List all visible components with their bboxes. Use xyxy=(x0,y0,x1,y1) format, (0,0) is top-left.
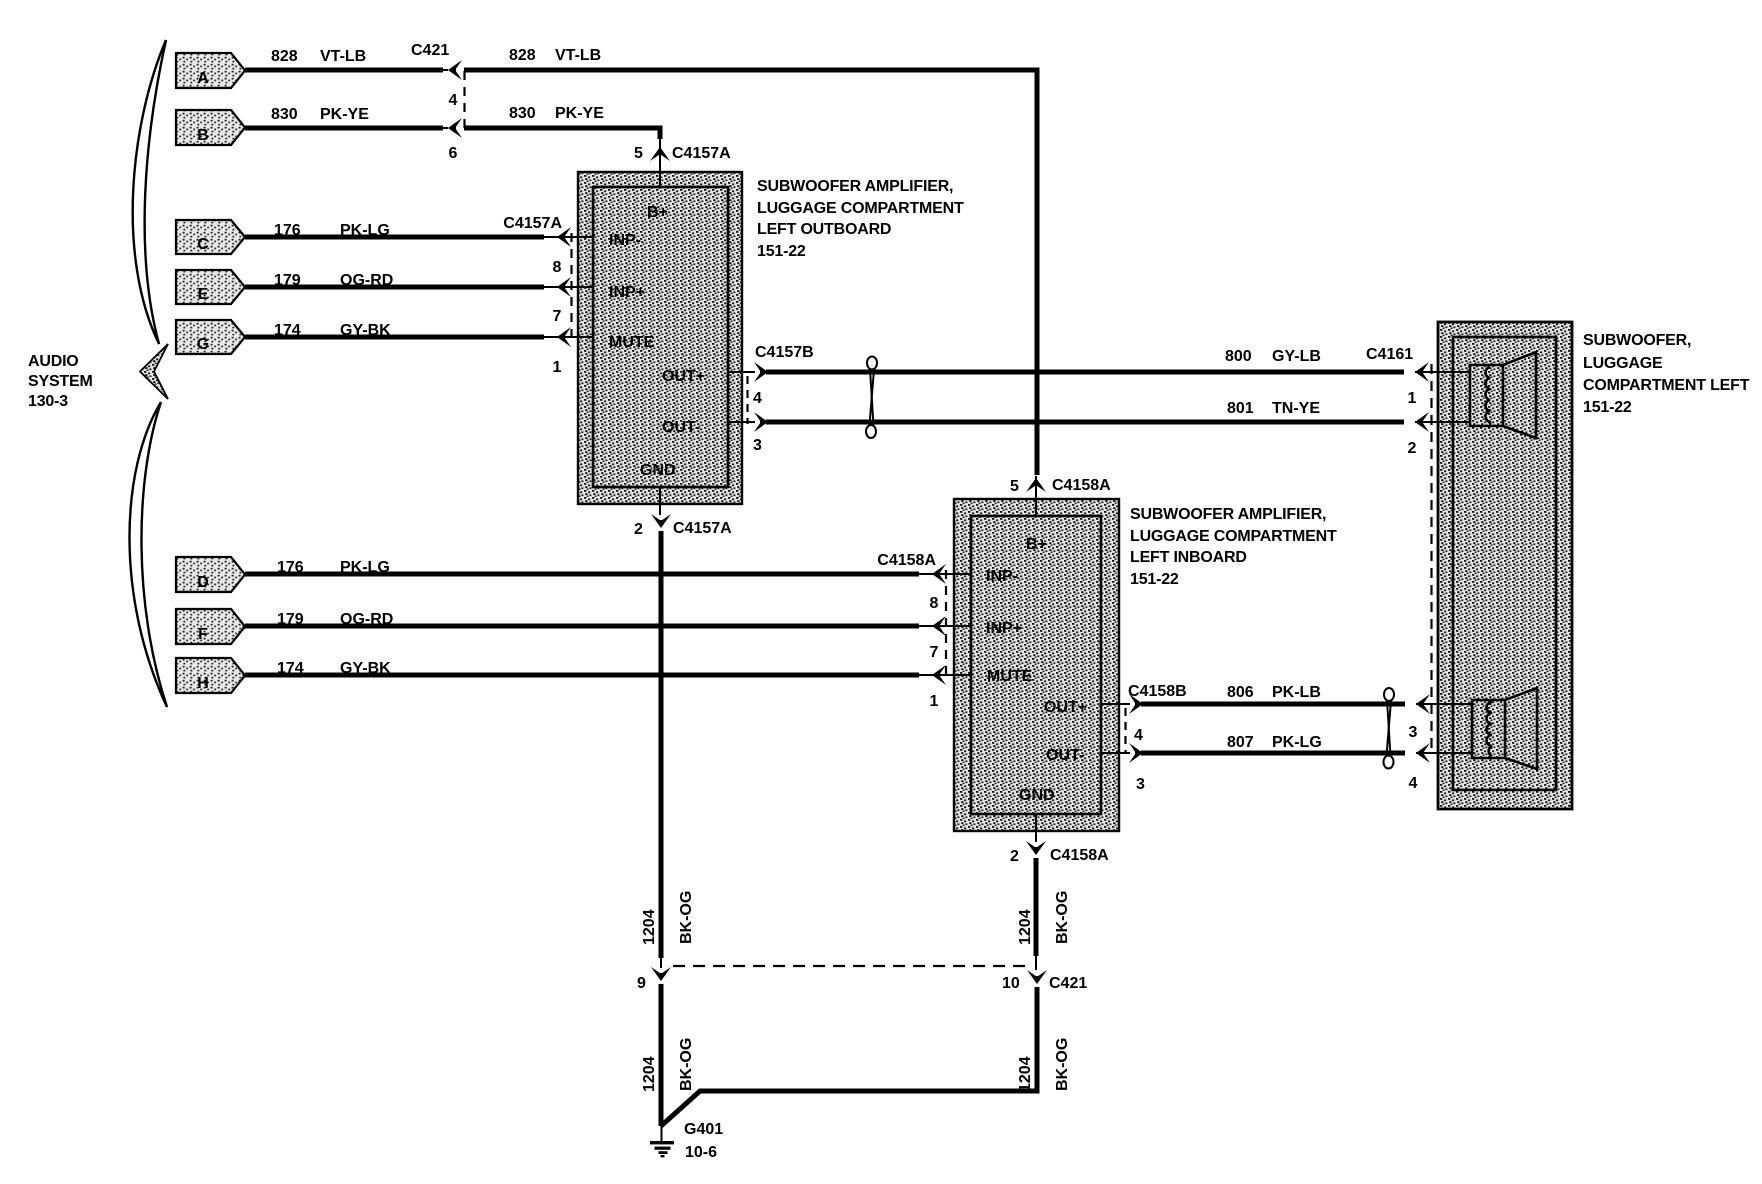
wire 830 PK-YE (C421 to amp1 B+) xyxy=(464,128,660,139)
C4158B pin 3 arrow xyxy=(1129,743,1143,763)
pin B xyxy=(176,110,245,145)
svg-text:1: 1 xyxy=(1408,390,1417,407)
svg-text:4: 4 xyxy=(449,92,458,109)
svg-text:LUGGAGE: LUGGAGE xyxy=(1583,355,1663,372)
C4157B pin 3 arrow xyxy=(754,412,768,432)
svg-text:4: 4 xyxy=(1409,775,1418,792)
C4157A pin 1 arrow xyxy=(557,327,571,347)
svg-text:SUBWOOFER,: SUBWOOFER, xyxy=(1583,332,1691,349)
wire stub C4161 pin 1 into subwoofer xyxy=(1415,371,1470,373)
svg-text:PK-LG: PK-LG xyxy=(340,559,390,576)
pin G xyxy=(176,320,245,354)
C4157B dashed boundary xyxy=(746,376,748,424)
svg-text:PK-LB: PK-LB xyxy=(1272,684,1321,701)
wire OUT+ stub xyxy=(1101,703,1130,705)
svg-text:PK-YE: PK-YE xyxy=(555,105,604,122)
C4157A pin 7 arrow xyxy=(557,277,571,297)
wire stub C4157A pin 8 into amp1 xyxy=(558,236,593,238)
wire OUT+ stub xyxy=(728,371,755,373)
svg-text:PK-YE: PK-YE xyxy=(320,106,369,123)
wire 801 TN-YE (amp1 OUT- to subwoofer) xyxy=(766,420,1404,425)
svg-text:1204: 1204 xyxy=(641,909,658,945)
C4157A pin 8 arrow xyxy=(557,227,571,247)
wire 174 GY-BK (pin G to C4157A pin 1) xyxy=(245,335,544,340)
svg-text:C4157A: C4157A xyxy=(673,520,732,537)
brace arrow dart xyxy=(140,344,168,399)
svg-text:GY-BK: GY-BK xyxy=(340,322,391,339)
wire 1204 BK-OG (below C421 right, to ground run) xyxy=(661,987,1037,1126)
wire stub C4157A pin 5 into amp1 B+ xyxy=(659,158,661,188)
pin D xyxy=(176,557,245,592)
C4158B dashed boundary xyxy=(1124,708,1126,753)
svg-text:C: C xyxy=(197,236,209,253)
svg-text:B+: B+ xyxy=(647,204,668,221)
twisted pair symbol xyxy=(1384,688,1395,769)
svg-text:SYSTEM: SYSTEM xyxy=(28,373,93,390)
svg-text:INP-: INP- xyxy=(986,568,1018,585)
svg-text:A: A xyxy=(197,70,209,87)
svg-text:176: 176 xyxy=(274,222,301,239)
svg-text:C421: C421 xyxy=(1049,975,1087,992)
svg-text:VT-LB: VT-LB xyxy=(555,47,601,64)
svg-text:GY-BK: GY-BK xyxy=(340,660,391,677)
svg-text:OUT-: OUT- xyxy=(1046,747,1084,764)
C421 dashed boundary (horizontal) xyxy=(673,965,1028,967)
C4161 pin 3 arrow xyxy=(1416,703,1472,705)
svg-text:TN-YE: TN-YE xyxy=(1272,400,1320,417)
C4157A input dashed boundary xyxy=(570,233,572,344)
twisted pair symbol xyxy=(866,357,877,439)
svg-text:OUT+: OUT+ xyxy=(662,368,705,385)
svg-text:3: 3 xyxy=(1136,776,1145,793)
svg-text:G: G xyxy=(197,336,209,353)
speaker LS1 (top voice coil + cone) xyxy=(1470,352,1536,438)
wire 828 VT-LB (C421 to vertical feed) xyxy=(464,70,1037,475)
svg-text:4: 4 xyxy=(753,390,762,407)
brace upper crescent xyxy=(133,40,166,344)
C4161 pin 4 arrow xyxy=(1416,752,1472,754)
C4158A pin 2 arrow (amp2 GND) xyxy=(1035,814,1037,841)
svg-text:LUGGAGE COMPARTMENT: LUGGAGE COMPARTMENT xyxy=(757,200,964,217)
wire 179 OG-RD (pin E to C4157A pin 7) xyxy=(245,285,544,290)
svg-text:C4158A: C4158A xyxy=(877,552,936,569)
pin E xyxy=(176,270,245,304)
wire 807 PK-LG (amp2 OUT- to subwoofer) xyxy=(1141,751,1405,756)
wire stub C4161 pin 2 into subwoofer xyxy=(1415,421,1470,423)
svg-text:3: 3 xyxy=(753,437,762,454)
svg-text:MUTE: MUTE xyxy=(609,334,655,351)
wire 800 GY-LB (amp1 OUT+ to subwoofer) xyxy=(766,370,1404,375)
svg-text:C4158A: C4158A xyxy=(1050,847,1109,864)
svg-text:PK-LG: PK-LG xyxy=(340,222,390,239)
svg-text:C4157A: C4157A xyxy=(503,215,562,232)
wire 828 VT-LB (pin A to C421) xyxy=(245,68,443,73)
wire stub amp1 GND to pin 2 xyxy=(659,486,661,515)
wire OUT- stub xyxy=(1101,752,1130,754)
wire stub C4158A pin 1 into amp2 xyxy=(932,674,971,676)
svg-text:174: 174 xyxy=(274,322,301,339)
svg-text:C4157B: C4157B xyxy=(755,344,814,361)
pin H xyxy=(176,658,245,693)
svg-text:1: 1 xyxy=(553,359,562,376)
wire stub C4161 pin 4 into subwoofer xyxy=(1416,752,1472,754)
svg-text:1204: 1204 xyxy=(1017,1056,1034,1092)
svg-text:130-3: 130-3 xyxy=(28,393,68,410)
svg-text:10-6: 10-6 xyxy=(685,1144,717,1161)
C4161 pin 1 arrow xyxy=(1415,371,1470,373)
C4158B pin 4 arrow xyxy=(1129,694,1143,714)
svg-text:OG-RD: OG-RD xyxy=(340,272,393,289)
svg-text:2: 2 xyxy=(634,521,643,538)
svg-text:7: 7 xyxy=(553,308,562,325)
svg-text:BK-OG: BK-OG xyxy=(1054,891,1071,944)
svg-text:800: 800 xyxy=(1225,348,1252,365)
brace lower crescent xyxy=(129,402,167,707)
svg-text:6: 6 xyxy=(449,145,458,162)
svg-text:2: 2 xyxy=(1010,848,1019,865)
svg-text:MUTE: MUTE xyxy=(987,668,1033,685)
svg-text:BK-OG: BK-OG xyxy=(678,1038,695,1091)
svg-text:LEFT OUTBOARD: LEFT OUTBOARD xyxy=(757,221,891,238)
svg-text:151-22: 151-22 xyxy=(1130,571,1179,588)
svg-text:E: E xyxy=(198,286,209,303)
pin A xyxy=(176,53,245,88)
C4161 dashed boundary xyxy=(1430,364,1432,754)
svg-text:174: 174 xyxy=(277,660,304,677)
svg-text:9: 9 xyxy=(637,975,646,992)
svg-text:GND: GND xyxy=(1019,787,1055,804)
svg-text:1204: 1204 xyxy=(641,1056,658,1092)
svg-text:INP+: INP+ xyxy=(609,284,645,301)
svg-text:B+: B+ xyxy=(1026,536,1047,553)
amp U1 body xyxy=(578,172,742,504)
svg-text:10: 10 xyxy=(1002,975,1020,992)
pin C xyxy=(176,220,245,254)
C4157A pin 2 arrow (amp1 GND) xyxy=(659,487,661,514)
svg-text:151-22: 151-22 xyxy=(757,243,806,260)
svg-text:5: 5 xyxy=(634,145,643,162)
svg-text:INP-: INP- xyxy=(609,232,641,249)
svg-text:806: 806 xyxy=(1227,684,1254,701)
svg-text:BK-OG: BK-OG xyxy=(678,891,695,944)
connector C421 dashed boundary xyxy=(463,71,465,130)
svg-text:B: B xyxy=(197,127,209,144)
ground G401 xyxy=(661,1126,663,1141)
svg-text:GY-LB: GY-LB xyxy=(1272,348,1321,365)
wire 1204 BK-OG (below C421 left) xyxy=(659,984,664,1126)
svg-text:2: 2 xyxy=(1408,440,1417,457)
svg-text:COMPARTMENT LEFT: COMPARTMENT LEFT xyxy=(1583,377,1750,394)
svg-text:828: 828 xyxy=(509,47,536,64)
svg-text:OUT-: OUT- xyxy=(662,419,700,436)
svg-text:OG-RD: OG-RD xyxy=(340,611,393,628)
svg-text:8: 8 xyxy=(553,259,562,276)
wire 830 PK-YE (pin B to C421) xyxy=(245,126,443,131)
wire 174 GY-BK (pin H to C4158A pin 1) xyxy=(245,673,919,678)
svg-text:AUDIO: AUDIO xyxy=(28,353,79,370)
wire 806 PK-LB (amp2 OUT+ to subwoofer) xyxy=(1141,702,1405,707)
C4158A pin 7 arrow xyxy=(932,616,946,636)
svg-text:179: 179 xyxy=(274,272,301,289)
svg-text:C4158B: C4158B xyxy=(1128,683,1187,700)
svg-text:LEFT INBOARD: LEFT INBOARD xyxy=(1130,549,1247,566)
wire 1204 BK-OG (amp1 GND down) xyxy=(659,531,664,958)
svg-text:C421: C421 xyxy=(411,42,449,59)
svg-text:D: D xyxy=(197,574,209,591)
connector C421 arrow pin 6 xyxy=(448,118,462,138)
svg-text:5: 5 xyxy=(1010,478,1019,495)
svg-text:VT-LB: VT-LB xyxy=(320,48,366,65)
wire 179 OG-RD (pin F to C4158A pin 7) xyxy=(245,624,919,629)
svg-text:830: 830 xyxy=(509,105,536,122)
wire stub C4161 pin 3 into subwoofer xyxy=(1416,703,1472,705)
svg-text:OUT+: OUT+ xyxy=(1044,699,1087,716)
svg-text:1: 1 xyxy=(930,693,939,710)
connector C421 arrow pin 4 xyxy=(448,60,462,80)
connector C4158A pin 5 arrow xyxy=(1035,476,1037,516)
svg-text:G401: G401 xyxy=(684,1121,723,1138)
svg-text:SUBWOOFER AMPLIFIER,: SUBWOOFER AMPLIFIER, xyxy=(1130,506,1326,523)
svg-text:SUBWOOFER AMPLIFIER,: SUBWOOFER AMPLIFIER, xyxy=(757,178,953,195)
C4158A pin 8 arrow xyxy=(932,564,946,584)
wire 176 PK-LG (pin D to C4158A pin 8) xyxy=(245,572,919,577)
svg-text:H: H xyxy=(197,675,209,692)
svg-text:807: 807 xyxy=(1227,734,1254,751)
amp U2 body xyxy=(954,499,1119,831)
svg-text:801: 801 xyxy=(1227,400,1254,417)
svg-text:C4157A: C4157A xyxy=(672,145,731,162)
svg-text:1204: 1204 xyxy=(1017,909,1034,945)
wire stub C4157A pin 1 into amp1 xyxy=(558,336,593,338)
svg-text:PK-LG: PK-LG xyxy=(1272,734,1322,751)
speaker LS2 (bottom voice coil + cone) xyxy=(1472,688,1537,769)
svg-text:C4158A: C4158A xyxy=(1052,477,1111,494)
wire 176 PK-LG (pin C to C4157A pin 8) xyxy=(245,235,544,240)
svg-text:830: 830 xyxy=(271,106,298,123)
wire stub C4158A pin 7 into amp2 xyxy=(932,625,971,627)
wire 1204 BK-OG (amp2 GND down) xyxy=(1034,858,1039,956)
C4158A input dashed boundary xyxy=(945,570,947,681)
svg-text:C4161: C4161 xyxy=(1366,346,1413,363)
subwoofer body xyxy=(1438,322,1572,809)
svg-text:INP+: INP+ xyxy=(986,620,1022,637)
svg-text:179: 179 xyxy=(277,611,304,628)
wire stub amp2 GND to pin 2 xyxy=(1035,813,1037,842)
C421 pin 9 arrow xyxy=(651,967,671,981)
C4158A pin 1 arrow xyxy=(932,665,946,685)
pin F xyxy=(176,609,245,644)
wire stub C4157A pin 7 into amp1 xyxy=(558,286,593,288)
svg-text:7: 7 xyxy=(930,644,939,661)
C421 pin 10 arrow xyxy=(1027,970,1047,984)
svg-text:176: 176 xyxy=(277,559,304,576)
svg-text:828: 828 xyxy=(271,48,298,65)
C4157B pin 4 arrow xyxy=(754,362,768,382)
svg-text:8: 8 xyxy=(930,595,939,612)
svg-text:F: F xyxy=(198,626,208,643)
svg-text:LUGGAGE COMPARTMENT: LUGGAGE COMPARTMENT xyxy=(1130,528,1337,545)
C4161 pin 2 arrow xyxy=(1415,421,1470,423)
svg-text:BK-OG: BK-OG xyxy=(1054,1038,1071,1091)
svg-text:3: 3 xyxy=(1409,724,1418,741)
wire stub C4158A pin 8 into amp2 xyxy=(932,573,971,575)
wire OUT- stub xyxy=(728,421,755,423)
svg-text:GND: GND xyxy=(640,462,676,479)
svg-text:151-22: 151-22 xyxy=(1583,399,1632,416)
svg-text:4: 4 xyxy=(1134,727,1143,744)
wire stub C4158A pin 5 into amp2 B+ xyxy=(1035,486,1037,517)
connector C4157A pin 5 arrow xyxy=(659,139,661,172)
